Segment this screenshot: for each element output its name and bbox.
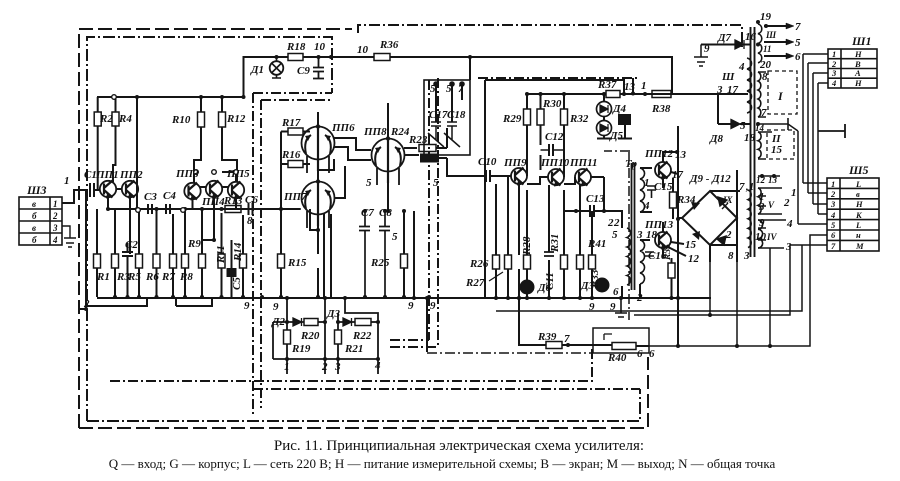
svg-text:С1: С1 — [84, 169, 97, 181]
wires to connectors — [496, 54, 845, 346]
wire pins down — [287, 359, 378, 374]
svg-text:R26: R26 — [469, 258, 489, 270]
svg-text:12: 12 — [756, 175, 766, 185]
svg-text:4: 4 — [643, 200, 650, 212]
svg-text:Д5: Д5 — [609, 130, 624, 142]
bridge diode c — [692, 231, 700, 240]
transistor PP3 — [184, 183, 200, 199]
svg-text:3: 3 — [830, 199, 836, 209]
junction dots right — [670, 20, 777, 300]
frame outer dashed — [79, 29, 648, 428]
svg-text:6: 6 — [649, 348, 655, 360]
wire R27 pointer — [489, 272, 503, 281]
svg-text:9: 9 — [244, 300, 250, 312]
svg-text:7: 7 — [458, 83, 464, 95]
wire bundle v1 — [803, 54, 828, 183]
box C17 C18 — [424, 80, 470, 155]
junction dot R40 line — [676, 344, 680, 348]
transistor PP11 — [575, 169, 591, 185]
wire PP9-11 links — [527, 168, 604, 184]
transistor PP1 — [100, 181, 116, 197]
svg-text:7: 7 — [761, 107, 767, 119]
wire bundle v3 — [813, 73, 828, 204]
svg-text:С9: С9 — [297, 65, 310, 77]
svg-text:2: 2 — [83, 298, 90, 310]
bridge diode a — [691, 202, 700, 210]
svg-text:Н: Н — [854, 78, 862, 88]
svg-text:10: 10 — [755, 231, 767, 243]
svg-text:5: 5 — [433, 177, 439, 189]
svg-text:R19: R19 — [291, 343, 311, 355]
svg-text:R13: R13 — [223, 195, 243, 207]
svg-text:2: 2 — [783, 197, 790, 209]
svg-text:Q — вход; G — корпус; L — се: Q — вход; G — корпус; L — сеть 220 В; Н … — [109, 456, 776, 471]
resistor R5 — [136, 254, 143, 268]
transistor PP10 — [548, 169, 564, 185]
measuring box — [273, 298, 379, 374]
svg-text:5: 5 — [366, 177, 372, 189]
svg-text:18: 18 — [744, 132, 756, 144]
wire PP13 leads — [663, 222, 686, 258]
wire left stub — [273, 322, 287, 359]
resistor R34 — [670, 192, 677, 208]
wire output to Sh5 — [634, 245, 827, 315]
wire R9 top link — [202, 209, 214, 240]
capacitor C11 — [544, 252, 554, 256]
svg-text:Ш3: Ш3 — [26, 183, 47, 197]
svg-text:М: М — [855, 241, 864, 251]
svg-text:2: 2 — [321, 361, 328, 373]
wire terminal T — [818, 124, 845, 138]
svg-text:4: 4 — [830, 210, 835, 220]
resistor R22 — [355, 319, 371, 326]
svg-text:R31: R31 — [549, 234, 561, 253]
svg-text:IV: IV — [766, 232, 778, 242]
svg-text:Д8: Д8 — [709, 133, 724, 145]
wire R10 column — [194, 97, 201, 183]
svg-text:Д6: Д6 — [537, 282, 552, 294]
resistor R11 — [218, 254, 225, 268]
wire R17 R16 column — [281, 132, 310, 298]
resistor R10 — [198, 112, 205, 127]
wire PP6 PP8 link — [334, 138, 371, 160]
resistor R39 — [546, 342, 562, 349]
svg-text:19: 19 — [760, 11, 772, 23]
diode D8 — [731, 120, 740, 129]
svg-text:2: 2 — [830, 189, 836, 199]
svg-text:7: 7 — [795, 21, 801, 33]
capacitor C13 — [590, 205, 594, 217]
svg-text:С10: С10 — [478, 156, 497, 168]
svg-text:ПП10: ПП10 — [540, 157, 570, 169]
svg-text:С5: С5 — [231, 277, 243, 290]
svg-text:3: 3 — [785, 241, 792, 253]
resistor R36 — [374, 54, 390, 61]
resistor R29 — [524, 109, 531, 125]
R39 R40 row — [414, 211, 649, 353]
diode D3 — [343, 318, 352, 326]
transistor PP4 — [206, 181, 222, 197]
capacitor C5 dark — [228, 269, 236, 276]
capacitor C2 — [122, 252, 133, 256]
svg-text:2: 2 — [636, 292, 643, 304]
svg-text:Д3: Д3 — [326, 308, 341, 320]
svg-text:8: 8 — [247, 215, 253, 227]
svg-text:R7: R7 — [161, 271, 175, 283]
wire R13 C6 row — [241, 208, 262, 210]
resistor R9 — [199, 254, 206, 268]
frame tube box dash-dot — [253, 78, 438, 414]
wire to R39 feed — [414, 211, 546, 352]
svg-text:R16: R16 — [281, 149, 301, 161]
svg-text:9: 9 — [704, 43, 710, 55]
svg-text:1: 1 — [831, 179, 835, 189]
svg-text:С18: С18 — [447, 109, 466, 121]
svg-text:R10: R10 — [171, 114, 191, 126]
resistor R24 — [419, 145, 436, 152]
box winding I dashed — [768, 71, 797, 114]
resistor R38 — [652, 91, 671, 98]
connector Sh1 — [828, 49, 877, 88]
svg-text:R12: R12 — [226, 113, 246, 125]
svg-text:9: 9 — [430, 300, 436, 312]
svg-text:4: 4 — [831, 78, 836, 88]
svg-text:R18: R18 — [286, 41, 306, 53]
svg-text:ПП5: ПП5 — [226, 168, 250, 180]
wire PP1-PP2 link — [108, 183, 137, 254]
resistor R25 — [401, 254, 408, 268]
frame dash-dot 353 — [427, 352, 591, 354]
svg-text:ПП4: ПП4 — [201, 196, 225, 208]
wire D4 D5 col — [597, 78, 633, 211]
wire vertical 485 — [484, 80, 486, 298]
svg-text:Ш: Ш — [765, 30, 777, 40]
svg-text:R34: R34 — [676, 194, 696, 206]
svg-text:ПП9: ПП9 — [503, 157, 527, 169]
wire R30 col — [540, 94, 542, 170]
svg-text:R32: R32 — [569, 113, 589, 125]
transformer Tr left winding — [627, 228, 630, 285]
resistor R19 — [284, 330, 291, 344]
ground sym mid — [615, 298, 627, 317]
svg-text:5: 5 — [446, 83, 452, 95]
capacitor C18 — [444, 122, 460, 147]
resistor R31 — [561, 255, 568, 269]
svg-text:6: 6 — [795, 51, 801, 63]
resistor R41a — [577, 255, 584, 269]
resistor R28 — [524, 255, 531, 269]
svg-text:R15: R15 — [287, 257, 307, 269]
wire I taps — [758, 72, 788, 130]
transistor PP2 — [122, 181, 138, 197]
labels tube section — [250, 39, 439, 312]
transformer Tr right winding 1 — [640, 168, 645, 212]
svg-text:R21: R21 — [344, 343, 363, 355]
wire C1 to PP1 — [94, 189, 100, 191]
svg-text:Д4: Д4 — [612, 103, 627, 115]
wire R40 to Sh5 — [649, 235, 827, 346]
wire PP3 PP4 PP5 links — [193, 172, 237, 209]
svg-text:С8: С8 — [379, 207, 392, 219]
resistor R3 — [112, 254, 119, 268]
svg-text:С2: С2 — [125, 239, 138, 251]
wire R38 to transformer — [671, 93, 748, 95]
wire top bus B+ — [97, 96, 244, 98]
wire D7 row — [701, 44, 750, 46]
svg-text:1: 1 — [791, 187, 797, 199]
resistor R2 — [94, 112, 101, 126]
svg-text:13: 13 — [624, 81, 636, 93]
connector Sh5 — [827, 178, 879, 251]
svg-text:14: 14 — [755, 123, 765, 133]
resistor R16 — [288, 161, 303, 168]
svg-text:9: 9 — [273, 301, 279, 313]
svg-text:R29: R29 — [502, 113, 522, 125]
svg-text:R2: R2 — [99, 113, 113, 125]
svg-text:R39: R39 — [537, 331, 557, 343]
svg-text:Д2: Д2 — [271, 316, 286, 328]
svg-text:R30: R30 — [542, 98, 562, 110]
svg-text:1: 1 — [641, 80, 647, 92]
wire R4 column — [113, 97, 116, 182]
svg-text:13: 13 — [768, 175, 778, 185]
wire C17 C18 pins — [436, 84, 462, 122]
svg-text:L: L — [855, 179, 861, 189]
svg-text:8: 8 — [728, 250, 734, 262]
resistor R40 — [612, 343, 636, 350]
capacitor C15 — [647, 186, 656, 198]
svg-text:R20: R20 — [300, 330, 320, 342]
transistor PP12 — [655, 162, 671, 178]
labels right section — [613, 11, 872, 304]
power tr winding I — [758, 72, 761, 117]
svg-text:ПП2: ПП2 — [119, 169, 143, 181]
power tr winding top right — [758, 24, 762, 63]
svg-text:R40: R40 — [607, 352, 627, 364]
svg-text:6: 6 — [637, 348, 643, 360]
svg-text:3: 3 — [743, 250, 750, 262]
wire mid rail y94 — [527, 93, 672, 95]
diode D3 dark — [596, 279, 609, 292]
tube PP8 — [372, 139, 405, 172]
svg-text:ПП1: ПП1 — [95, 169, 119, 181]
wire R36 long to right — [390, 57, 672, 94]
svg-text:9: 9 — [408, 300, 414, 312]
wire node2 drop — [79, 190, 86, 309]
svg-text:2: 2 — [607, 217, 614, 229]
svg-text:ПП3: ПП3 — [175, 168, 199, 180]
wire sub bus segments — [85, 298, 212, 306]
wire emitter columns — [496, 176, 592, 298]
resistor R27b — [505, 255, 512, 269]
wire rail risers — [485, 80, 624, 94]
svg-text:L: L — [855, 220, 861, 230]
svg-text:ПП6: ПП6 — [331, 122, 355, 134]
resistor R7 — [170, 254, 177, 268]
svg-text:4: 4 — [786, 218, 793, 230]
labels left section — [26, 113, 258, 312]
wire resistor columns — [97, 209, 243, 297]
svg-text:R27: R27 — [465, 277, 485, 289]
wire input from Sh3 — [62, 190, 88, 203]
wire bundle v2 — [808, 63, 828, 193]
frame measuring dash-dot — [110, 78, 640, 389]
wire bottom bus — [97, 297, 711, 299]
wire R34 col — [672, 178, 674, 219]
wire R32 col — [563, 94, 565, 170]
svg-text:18: 18 — [646, 229, 658, 241]
frame inner dash-dot — [87, 37, 640, 421]
bridge diode b — [718, 197, 728, 209]
svg-text:R35: R35 — [663, 244, 673, 261]
node open circles — [112, 95, 239, 213]
svg-text:5: 5 — [392, 231, 398, 243]
bridge D9-D12 — [682, 191, 737, 245]
svg-text:3: 3 — [636, 229, 643, 241]
capacitor C6 — [249, 203, 253, 215]
svg-text:R8: R8 — [179, 271, 193, 283]
wire winding IV drop — [710, 248, 770, 346]
wire winding taps right — [758, 132, 786, 248]
svg-text:1: 1 — [284, 361, 290, 373]
svg-text:R11: R11 — [215, 245, 227, 264]
wire PP8 tails — [388, 148, 419, 211]
svg-text:С4: С4 — [163, 190, 176, 202]
svg-text:в: в — [856, 189, 860, 199]
diode D2 — [293, 318, 302, 326]
svg-text:16: 16 — [745, 31, 757, 43]
svg-text:в: в — [32, 223, 36, 233]
svg-text:ПП7: ПП7 — [283, 191, 307, 203]
svg-text:R41: R41 — [587, 238, 606, 250]
svg-text:ПП12: ПП12 — [644, 148, 674, 160]
svg-text:б: б — [32, 211, 37, 221]
svg-text:Д1: Д1 — [250, 64, 264, 76]
frame Tr dash-dot — [628, 150, 630, 320]
svg-text:2: 2 — [52, 211, 58, 221]
resistor R20 — [304, 319, 318, 326]
wire PP2 collector column — [136, 97, 138, 183]
capacitor C17 — [428, 122, 444, 147]
svg-text:17: 17 — [672, 169, 684, 181]
wire D8 row — [718, 94, 750, 124]
svg-text:R9: R9 — [187, 238, 201, 250]
wire PP7 anode links — [318, 159, 345, 254]
svg-text:3: 3 — [716, 84, 723, 96]
svg-text:9: 9 — [759, 217, 765, 229]
svg-text:5: 5 — [795, 37, 801, 49]
wire feed 2 — [324, 298, 326, 359]
svg-text:R36: R36 — [379, 39, 399, 51]
wire mid bus y209 — [108, 208, 300, 210]
svg-text:Ш: Ш — [721, 71, 735, 83]
capacitor C7 — [359, 211, 370, 297]
resistor R4 — [112, 112, 119, 126]
svg-text:12: 12 — [688, 253, 700, 265]
wire R12 column — [222, 97, 237, 182]
wire bottom rail — [273, 358, 379, 360]
svg-text:Ш1: Ш1 — [851, 34, 872, 48]
lamp D1 — [270, 61, 284, 75]
svg-text:5: 5 — [740, 120, 746, 132]
svg-text:15: 15 — [771, 144, 783, 156]
svg-text:5: 5 — [612, 229, 618, 241]
power tr winding III left — [747, 58, 752, 113]
svg-text:С3: С3 — [144, 191, 157, 203]
diode D6 dark — [521, 281, 534, 294]
svg-text:R22: R22 — [352, 330, 372, 342]
resistor R26 — [493, 255, 500, 269]
svg-text:С13: С13 — [586, 193, 605, 205]
svg-text:1: 1 — [832, 49, 836, 59]
svg-text:IX: IX — [722, 195, 734, 205]
svg-text:Д3: Д3 — [580, 280, 595, 292]
resistor R41b — [589, 255, 596, 269]
svg-text:ПП8: ПП8 — [363, 126, 387, 138]
resistor R13 — [225, 206, 241, 213]
svg-text:3: 3 — [758, 201, 765, 213]
ground chassis Sh3 — [62, 226, 76, 247]
diode D5 — [597, 121, 612, 136]
wire feed 3 — [338, 298, 378, 359]
frame upper-right dash-dot — [358, 25, 742, 47]
resistor R17 — [288, 128, 303, 135]
svg-text:R1: R1 — [96, 271, 110, 283]
wire bundle v4 — [818, 83, 828, 214]
resistor R14 — [240, 254, 247, 268]
transistor PP9 — [511, 168, 527, 184]
svg-text:R25: R25 — [370, 257, 390, 269]
resistor R12 — [219, 112, 226, 127]
box R40 — [593, 328, 649, 353]
transistor PP13 — [655, 232, 671, 248]
svg-text:С17: С17 — [429, 109, 448, 121]
svg-text:7: 7 — [564, 333, 570, 345]
svg-text:1: 1 — [53, 199, 58, 209]
svg-text:б: б — [32, 235, 37, 245]
resistor R37 — [606, 91, 620, 98]
box winding II dashed — [767, 130, 794, 159]
svg-text:Н: Н — [854, 49, 862, 59]
resistor R32 — [561, 109, 568, 125]
capacitor C12 — [549, 144, 553, 156]
resistor R33 dark — [619, 115, 630, 124]
svg-text:,1: ,1 — [745, 181, 754, 193]
wire R18 to R36 — [303, 56, 374, 58]
svg-text:R23: R23 — [408, 134, 428, 146]
svg-text:3: 3 — [831, 68, 837, 78]
svg-text:V: V — [768, 200, 775, 210]
svg-text:R38: R38 — [651, 103, 671, 115]
svg-text:R6: R6 — [145, 271, 159, 283]
wire feed 1 — [286, 298, 288, 359]
svg-text:13: 13 — [675, 149, 687, 161]
capacitor C4 — [166, 204, 170, 214]
svg-text:8: 8 — [762, 71, 768, 83]
svg-text:7: 7 — [739, 181, 745, 193]
svg-text:Рис. 11. Принципиальная электр: Рис. 11. Принципиальная электрическая сх… — [274, 438, 644, 454]
frame jog TR — [604, 150, 629, 152]
capacitor C16 — [645, 252, 654, 256]
diode D7 — [735, 40, 744, 49]
svg-text:10: 10 — [314, 41, 326, 53]
transformer Tr core — [632, 163, 635, 290]
wire 311 to Sh5 — [496, 245, 802, 311]
svg-text:ПП11: ПП11 — [569, 157, 598, 169]
wire bridge leads — [678, 126, 740, 346]
svg-text:6: 6 — [613, 286, 619, 298]
svg-text:Д7: Д7 — [717, 32, 732, 44]
